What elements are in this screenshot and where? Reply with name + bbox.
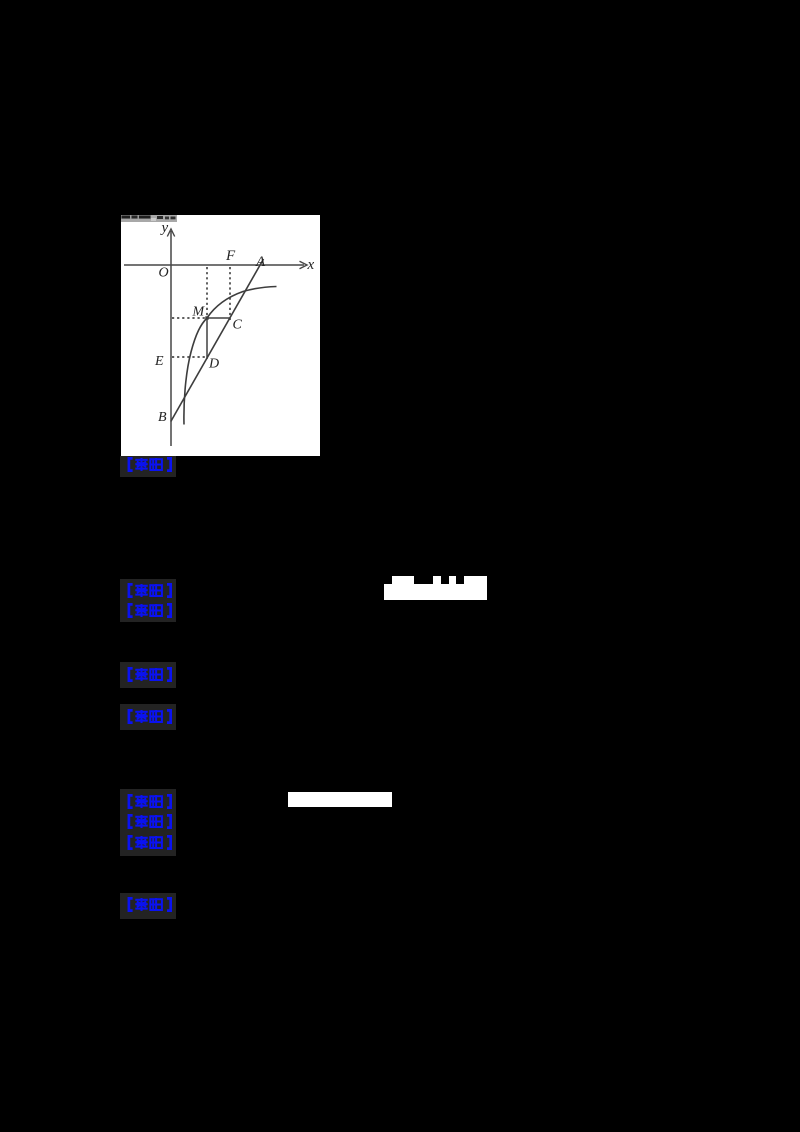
segment M to C bbox=[207, 317, 230, 319]
svg-text:x: x bbox=[307, 257, 315, 273]
blue label 2 kaodian bbox=[127, 583, 172, 598]
square marker at M bbox=[205, 316, 208, 319]
y-axis arrowhead bbox=[167, 229, 174, 237]
x-axis arrowhead bbox=[300, 261, 308, 268]
halo for labels 6-8 bbox=[120, 789, 176, 856]
blue label 7 fenxi bbox=[127, 814, 172, 829]
figure: white box with graph bbox=[121, 215, 320, 456]
svg-text:y: y bbox=[160, 220, 169, 236]
dashed vertical to M bbox=[206, 267, 208, 317]
dashed horizontal E to D bbox=[172, 356, 206, 358]
blue label 9 dianping bbox=[120, 893, 176, 919]
curve bbox=[184, 287, 277, 425]
svg-text:F: F bbox=[225, 248, 236, 264]
line B to A bbox=[171, 259, 264, 422]
svg-text:E: E bbox=[154, 354, 164, 369]
white formula blob on jieda line bbox=[288, 792, 392, 807]
svg-text:M: M bbox=[192, 305, 206, 320]
blue label 8 jieda bbox=[127, 835, 172, 850]
dashed vertical to C (through F) bbox=[229, 267, 231, 320]
segment M to D bbox=[206, 318, 208, 359]
cropped text strip at top of figure bbox=[121, 215, 177, 222]
dashed horizontal to M bbox=[172, 317, 206, 319]
x-axis bbox=[124, 264, 304, 266]
blue label 1 dianping bbox=[120, 456, 176, 477]
formula image blob on kaodian line bbox=[384, 584, 487, 600]
blue label 5 dianping bbox=[120, 704, 176, 730]
svg-text:O: O bbox=[159, 266, 169, 281]
svg-text:B: B bbox=[158, 410, 167, 425]
hidden defs for blue bracket labels bbox=[0, 0, 1, 1]
y-axis bbox=[170, 231, 172, 446]
svg-text:A: A bbox=[255, 254, 266, 270]
blue label 4 jieda bbox=[120, 662, 176, 688]
svg-text:C: C bbox=[233, 318, 243, 333]
blue label 6 kaodian bbox=[127, 794, 172, 809]
halo for labels 2-3 bbox=[120, 579, 176, 622]
svg-text:D: D bbox=[208, 357, 219, 372]
blue label 3 fenxi bbox=[127, 603, 172, 618]
